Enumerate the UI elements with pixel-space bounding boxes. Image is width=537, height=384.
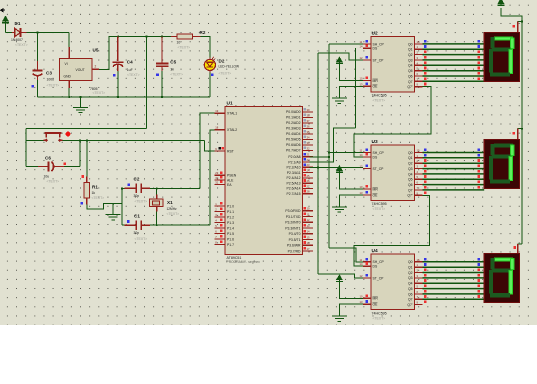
pin U1 P1.3 (4) [215, 222, 225, 224]
wire C1 left [122, 224, 125, 226]
svg-text:D1: D1 [15, 21, 21, 26]
pin U1 P1.0 (1) [215, 205, 225, 207]
wire SH_CP bus to U2 [329, 43, 363, 45]
svg-text:P3.2/INT0: P3.2/INT0 [285, 221, 300, 225]
svg-text:RST: RST [227, 149, 234, 153]
svg-text:ALE: ALE [227, 178, 234, 182]
pin U3 Q2 [414, 162, 422, 164]
svg-text:74HC595: 74HC595 [372, 94, 387, 98]
wire U2 OE to ground [339, 86, 363, 98]
svg-text:U3: U3 [372, 139, 378, 145]
svg-text:2: 2 [95, 65, 97, 69]
pin U3 Q1 [414, 157, 422, 159]
pin U2 DS (14) [363, 47, 371, 49]
wire R1 to XTAL ground node [87, 204, 122, 209]
wire C1/C2 left vertical [121, 188, 123, 225]
svg-text:DS: DS [373, 47, 378, 51]
capacitor C4 [112, 37, 123, 72]
diode D1 [12, 28, 27, 37]
svg-text:D2: D2 [219, 58, 225, 63]
svg-text:24: 24 [307, 169, 310, 173]
svg-text:P0.0/AD0: P0.0/AD0 [286, 110, 301, 114]
pin U1 P0.2/AD2 (37) [303, 122, 314, 124]
svg-text:U1: U1 [227, 101, 233, 107]
marker display3 seg1 [478, 263, 481, 266]
svg-text:MR: MR [373, 187, 379, 191]
marker display1 seg5 [478, 67, 481, 70]
ground U4 [332, 316, 347, 321]
svg-text:15: 15 [417, 258, 420, 262]
svg-text:Q1: Q1 [408, 156, 413, 160]
pin U3 Q7' (9) [414, 194, 422, 196]
svg-text:27: 27 [307, 184, 310, 188]
pin U1 P3.2/INT0 (12) [303, 221, 314, 223]
power arrow VCC U2 [336, 57, 343, 63]
svg-text:38: 38 [307, 113, 310, 117]
wire U2 Q2 to display segment [423, 54, 485, 56]
capacitor C5 [156, 37, 168, 72]
wire button to C6 right [79, 140, 81, 166]
junction ST bus / P2.2 row [317, 167, 319, 169]
capacitor C2 [125, 184, 151, 194]
svg-text:P0.6/AD6: P0.6/AD6 [286, 143, 301, 147]
pin U4 Q5 [414, 288, 422, 290]
svg-text:25: 25 [307, 174, 310, 178]
segment g off [492, 48, 511, 52]
junction button/C6 right [79, 139, 81, 141]
pin U1 P0.7/AD7 (32) [303, 149, 314, 151]
power arrow VCC U3 [336, 166, 343, 172]
wire to D1 [6, 32, 13, 34]
junction X1 top [156, 187, 158, 189]
button state dot red [66, 132, 71, 137]
svg-text:P0.2/AD2: P0.2/AD2 [286, 121, 301, 125]
crystal X1 body [149, 199, 163, 206]
7-segment display 2 [484, 140, 519, 189]
svg-text:U5: U5 [93, 48, 99, 53]
svg-text:MR: MR [373, 79, 379, 83]
svg-text:GND: GND [64, 75, 72, 79]
pin U3 Q7 [414, 189, 422, 191]
state marker C3 blue [32, 85, 35, 88]
pin U1 ALE (30) [215, 179, 225, 181]
svg-text:Q3: Q3 [408, 167, 413, 171]
wire U3 Q6 to display segment [423, 184, 485, 186]
junction SH bus / P2.0 [328, 156, 330, 158]
marker display2 seg5 [478, 175, 481, 178]
svg-text:<TEXT>: <TEXT> [92, 196, 105, 200]
svg-text:DS: DS [373, 265, 378, 269]
segment f off [491, 144, 495, 155]
segment c lit [509, 49, 513, 74]
wire U2 Q7 to display segment [423, 80, 485, 82]
svg-text:DS: DS [373, 155, 378, 159]
svg-text:<TEXT>: <TEXT> [135, 237, 148, 241]
pin U5 VOUT [92, 68, 99, 70]
wire U4 Q5 to display segment [423, 288, 485, 290]
svg-text:13: 13 [360, 82, 363, 86]
svg-text:10: 10 [177, 40, 181, 44]
segment c lit [509, 270, 513, 295]
svg-text:<TEXT>: <TEXT> [15, 43, 28, 47]
wire C1 right to XTAL2 riser [150, 224, 210, 226]
wire C3 to ground rail [37, 80, 39, 97]
marker display1 seg3 [478, 56, 481, 59]
wire VCC tap display1 [518, 20, 522, 22]
pin U1 P2.3/A11 (24) [303, 172, 314, 174]
marker display3 seg6 [478, 290, 481, 293]
pin R2 right [193, 36, 201, 38]
segment g off [492, 155, 511, 159]
svg-text:17: 17 [307, 247, 310, 251]
microcontroller U1 body [225, 107, 303, 255]
svg-text:15: 15 [307, 235, 310, 239]
svg-text:P1.2: P1.2 [227, 215, 234, 219]
resistor R2 body [177, 34, 193, 39]
svg-text:OE: OE [373, 303, 379, 307]
wire button right to RST bend [63, 139, 205, 141]
svg-text:14: 14 [360, 262, 363, 266]
svg-text:C4: C4 [127, 59, 133, 64]
pin U3 MR (10) [363, 188, 371, 190]
wire VCC tap display2 [518, 128, 522, 130]
svg-text:Q5: Q5 [408, 287, 413, 291]
svg-text:Q1: Q1 [408, 48, 413, 52]
svg-text:22: 22 [307, 158, 310, 162]
marker display3 seg5 [478, 285, 481, 288]
pin U5 GND [68, 81, 70, 89]
svg-text:32: 32 [307, 146, 310, 150]
svg-text:P2.1/A9: P2.1/A9 [288, 160, 300, 164]
svg-text:U2: U2 [372, 30, 378, 36]
junction VCC rail/C4 [117, 36, 119, 38]
svg-text:10: 10 [360, 185, 363, 189]
shift register U2 74HC595 [371, 36, 414, 92]
svg-text:28: 28 [307, 190, 310, 194]
pin U4 Q6 [414, 293, 422, 295]
svg-text:Q0: Q0 [408, 42, 413, 46]
pin U3 ST_CP (12) [363, 168, 371, 170]
wire X1 top [156, 188, 158, 194]
wire U2 Q3 to display segment [423, 59, 485, 61]
svg-text:Q5: Q5 [408, 178, 413, 182]
wire U4 Q4 to display segment [423, 282, 485, 284]
wire R2 to D2 [200, 37, 210, 58]
svg-text:P1.3: P1.3 [227, 221, 234, 225]
svg-text:VI: VI [65, 62, 68, 66]
svg-text:OE: OE [373, 85, 379, 89]
svg-text:23: 23 [307, 163, 310, 167]
svg-text:13: 13 [360, 300, 363, 304]
svg-text:P0.7/AD7: P0.7/AD7 [286, 149, 301, 153]
wire C2 left [122, 187, 125, 189]
marker display2 seg2 [478, 159, 481, 162]
wire U4 Q7 to display segment [423, 298, 485, 300]
power arrow VCC U4 [336, 275, 343, 281]
state marker D2 blue [211, 74, 214, 77]
wire P2.2 to ST_CP bus / U3 ST_CP [310, 166, 363, 168]
pin U3 Q3 [414, 168, 422, 170]
pin U3 SH_CP (11) [363, 152, 371, 154]
svg-text:100u: 100u [47, 78, 55, 82]
marker display1 seg0 [478, 40, 481, 43]
svg-text:<TEXT>: <TEXT> [373, 316, 386, 320]
svg-text:P0.1/AD1: P0.1/AD1 [286, 116, 301, 120]
svg-text:14: 14 [360, 44, 363, 48]
svg-text:14: 14 [307, 230, 310, 234]
svg-text:P1.0: P1.0 [227, 204, 234, 208]
ground reset/xtal [106, 215, 121, 220]
pin U4 Q7 [414, 298, 422, 300]
pin U2 Q2 [414, 54, 422, 56]
marker display3 seg4 [478, 279, 481, 282]
pin U2 MR (10) [363, 79, 371, 81]
pin U1 P2.2/A10 (23) [303, 166, 314, 168]
svg-text:P2.6/A14: P2.6/A14 [287, 187, 301, 191]
svg-text:74HC595: 74HC595 [372, 202, 387, 206]
svg-text:21: 21 [307, 153, 310, 157]
pin U1 P2.5/A13 (26) [303, 182, 314, 184]
svg-text:<TEXT>: <TEXT> [93, 91, 106, 95]
resistor R1 body [84, 183, 89, 198]
pin R2 left [171, 36, 177, 38]
pin U5 VI [68, 47, 70, 59]
wire C2 right to XTAL1 riser [150, 187, 200, 189]
segment d off [490, 179, 510, 183]
pin U2 Q7 [414, 80, 422, 82]
svg-text:P2.2/A10: P2.2/A10 [287, 166, 301, 170]
pin U1 P0.3/AD3 (36) [303, 127, 314, 129]
svg-text:C1: C1 [134, 214, 140, 219]
pin U4 Q4 [414, 282, 422, 284]
svg-text:<TEXT>: <TEXT> [178, 46, 191, 50]
svg-text:Q7: Q7 [408, 298, 413, 302]
wire XTAL2 riser [210, 130, 215, 225]
wire reset left vertical [25, 129, 27, 167]
svg-text:P0.4/AD4: P0.4/AD4 [286, 132, 301, 136]
pin U1 P1.6 (7) [215, 238, 225, 240]
pin U1 P3.1/TXD (11) [303, 216, 314, 218]
segment f off [491, 37, 495, 48]
pin U4 Q1 [414, 266, 422, 268]
pin U2 Q7' (9) [414, 86, 422, 88]
pin U4 OE (13) [363, 303, 371, 305]
svg-text:SH_CP: SH_CP [373, 151, 385, 155]
svg-text:10u: 10u [44, 175, 50, 179]
wire D1 to U5 node [27, 32, 70, 34]
svg-text:35: 35 [307, 130, 310, 134]
svg-text:PROGRAM=.. seg.hex: PROGRAM=.. seg.hex [227, 260, 261, 264]
svg-text:37: 37 [307, 119, 310, 123]
wire VCC to U2 MR [339, 64, 363, 81]
wire VCC tap display3 [518, 243, 522, 245]
svg-text:P2.0/A8: P2.0/A8 [288, 155, 300, 159]
svg-text:P3.7/RD: P3.7/RD [288, 249, 301, 253]
7-segment display 3 [484, 254, 519, 303]
svg-text:ST_CP: ST_CP [373, 58, 385, 62]
svg-text:ST_CP: ST_CP [373, 167, 385, 171]
pin U1 P2.1/A9 (22) [303, 161, 314, 163]
svg-text:16: 16 [307, 241, 310, 245]
svg-text:P1.4: P1.4 [227, 226, 234, 230]
pin U4 Q3 [414, 277, 422, 279]
svg-text:33: 33 [307, 141, 310, 145]
svg-text:P1.1: P1.1 [227, 210, 234, 214]
wire U4 OE to ground [339, 304, 363, 316]
svg-text:19: 19 [215, 109, 218, 113]
svg-text:29: 29 [215, 171, 218, 175]
wire U5 output to VCC rail [99, 37, 171, 70]
pin U1 P1.1 (2) [215, 211, 225, 213]
junction rail/U5 GND [68, 96, 70, 98]
junction SH bus / U3 tap [328, 152, 330, 154]
pin U2 Q4 [414, 64, 422, 66]
svg-text:<TEXT>: <TEXT> [135, 199, 148, 203]
pin U1 P3.0/RXD (10) [303, 210, 314, 212]
segment d off [490, 72, 510, 76]
capacitor C3 [33, 61, 43, 80]
pin U1 XTAL2 (18) [215, 129, 225, 131]
svg-text:Q6: Q6 [408, 292, 413, 296]
wire U2 DS riser vertical [354, 48, 356, 128]
svg-text:OE: OE [373, 193, 379, 197]
state marker C5 blue [156, 74, 159, 77]
svg-text:X1: X1 [167, 200, 173, 205]
svg-text:<TEXT>: <TEXT> [373, 207, 386, 211]
svg-text:U4: U4 [372, 248, 378, 254]
wire U3 Q7' to U4 DS [354, 195, 430, 266]
svg-text:P3.1/TXD: P3.1/TXD [286, 215, 301, 219]
wire VCC rail down to reset loop [146, 37, 148, 129]
svg-text:15: 15 [417, 40, 420, 44]
wire ST_CP bus to U4 [318, 274, 363, 278]
svg-text:39: 39 [307, 108, 310, 112]
svg-text:P2.7/A15: P2.7/A15 [287, 192, 301, 196]
state marker C2 blue [127, 184, 130, 187]
wire C5 to rail [161, 71, 163, 97]
pin U4 MR (10) [363, 297, 371, 299]
wire U3 Q5 to display segment [423, 178, 485, 180]
ground U3 [332, 207, 347, 212]
pin U3 Q5 [414, 178, 422, 180]
junction X1 bottom [156, 224, 158, 226]
svg-text:P3.6/WR: P3.6/WR [287, 244, 301, 248]
wire to button left [26, 139, 43, 141]
pin U1 P3.4/T0 (14) [303, 233, 314, 235]
pin U2 Q5 [414, 70, 422, 72]
wire reset top [26, 128, 147, 130]
svg-text:Q2: Q2 [408, 162, 413, 166]
svg-text:1N4007: 1N4007 [11, 38, 23, 42]
wire node to C3 [37, 33, 39, 62]
svg-text:P3.5/T1: P3.5/T1 [289, 238, 301, 242]
junction VCC rail/C5 [161, 36, 163, 38]
segment e off [489, 49, 493, 72]
sheet origin marker [1, 9, 6, 12]
wire C6 left [26, 165, 38, 167]
junction R1 wire/ground stub [112, 203, 114, 205]
pin U2 OE (13) [363, 85, 371, 87]
power arrow VCC displays [497, 0, 504, 5]
svg-text:XTAL1: XTAL1 [227, 112, 237, 116]
wire ST_CP bus vertical [317, 53, 319, 274]
svg-text:Q2: Q2 [408, 53, 413, 57]
svg-text:Q1: Q1 [408, 266, 413, 270]
marker display3 seg3 [478, 274, 481, 277]
svg-text:13: 13 [307, 224, 310, 228]
junction rail/C5 [161, 96, 163, 98]
wire SH_CP bus vertical [328, 44, 330, 248]
wire rail to ground [80, 97, 82, 107]
pin U4 ST_CP (12) [363, 277, 371, 279]
svg-text:R2: R2 [200, 30, 206, 35]
svg-text:P2.4/A12: P2.4/A12 [287, 176, 301, 180]
pin U1 P2.6/A14 (27) [303, 187, 314, 189]
pin U1 P1.5 (6) [215, 233, 225, 235]
marker display2 seg4 [478, 170, 481, 173]
junction rail/C4 [117, 96, 119, 98]
pin U2 Q1 [414, 48, 422, 50]
wire U3 Q4 to display segment [423, 173, 485, 175]
svg-text:<TEXT>: <TEXT> [167, 212, 180, 216]
marker display2 seg3 [478, 165, 481, 168]
svg-text:1uF: 1uF [127, 68, 133, 72]
pin U2 Q3 [414, 59, 422, 61]
svg-text:LED-YELLOW: LED-YELLOW [219, 64, 240, 68]
wire U3 Q3 to display segment [423, 168, 485, 170]
svg-text:15: 15 [417, 149, 420, 153]
7-segment display 1 [484, 33, 519, 82]
svg-text:P3.0/RXD: P3.0/RXD [285, 209, 301, 213]
push button [43, 133, 62, 142]
svg-text:Q0: Q0 [408, 151, 413, 155]
svg-text:12: 12 [360, 274, 363, 278]
marker display1 seg1 [478, 45, 481, 48]
pin U1 P3.7/RD (17) [303, 250, 314, 252]
pin U1 P1.7 (8) [215, 244, 225, 246]
svg-text:Q4: Q4 [408, 172, 413, 176]
svg-text:10: 10 [360, 294, 363, 298]
pin R1 bottom [86, 198, 88, 205]
wire U3 Q0 to display segment [423, 152, 485, 154]
wire ST_CP bus to U2 [318, 53, 363, 60]
pin display1 common [517, 21, 519, 32]
wire power arrow to D1 anode [5, 23, 7, 33]
segment d off [490, 293, 510, 297]
wire U4 Q2 to display segment [423, 272, 485, 274]
svg-text:12: 12 [360, 56, 363, 60]
svg-text:<TEXT>: <TEXT> [170, 73, 183, 77]
junction button/R1 [86, 139, 88, 141]
pin U1 P1.4 (5) [215, 227, 225, 229]
pin U4 Q7' (9) [414, 304, 422, 306]
wire XTAL1 riser [200, 113, 215, 188]
pin display3 common [517, 244, 519, 254]
pin U1 P0.1/AD1 (38) [303, 116, 314, 118]
svg-text:PSEN: PSEN [227, 174, 237, 178]
pin U1 P2.7/A15 (28) [303, 193, 314, 195]
marker display2 seg0 [478, 149, 481, 152]
wire P2.1 to U2 DS riser [310, 128, 356, 162]
svg-text:12: 12 [360, 165, 363, 169]
marker display1 common [512, 25, 515, 28]
marker display3 seg7 [478, 295, 481, 298]
wire VCC rail right [501, 8, 522, 244]
svg-text:MR: MR [373, 297, 379, 301]
wire button row to R1 [86, 140, 88, 176]
svg-text:34: 34 [307, 135, 310, 139]
svg-text:VOUT: VOUT [76, 68, 85, 72]
